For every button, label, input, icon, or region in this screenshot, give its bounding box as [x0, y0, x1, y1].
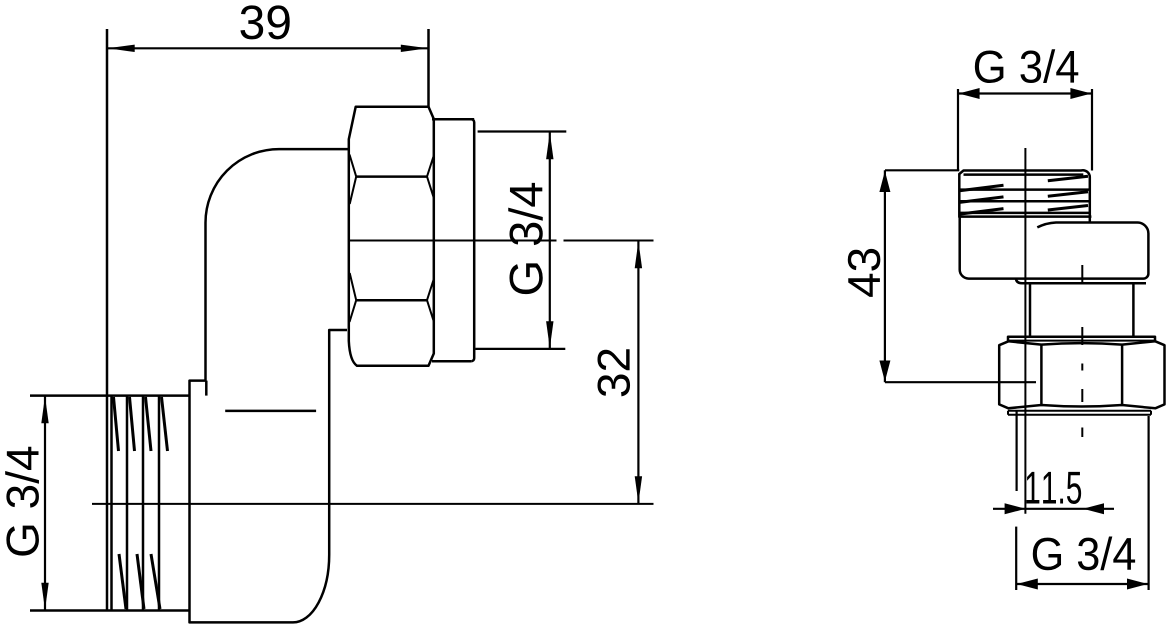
dim39 extension line left: [106, 29, 109, 396]
right view: G34 top extension right: [1091, 89, 1093, 171]
right view: thread wedge left 1: [960, 185, 1004, 191]
right view: dashed centerline segment 5: [1081, 428, 1083, 438]
right view: bottom washer: [1008, 411, 1151, 415]
dim115 arrow left: [1005, 503, 1026, 514]
union nut left notch lower: [350, 273, 357, 322]
elbow inner bore line: [225, 410, 316, 413]
thread end face inner: [110, 396, 113, 611]
dim32 dimension line: [637, 241, 639, 504]
G34 nut arrow up: [546, 132, 553, 159]
dim39 extension line right: [427, 29, 430, 107]
right view: dashed centerline segment 3: [1081, 364, 1083, 371]
sleeve right edge: [471, 119, 474, 361]
dim115 dimension line: [993, 508, 1114, 510]
G34 left arrow up: [41, 396, 48, 423]
dim43 arrow down: [879, 361, 890, 382]
right view: thread wedge left 3: [960, 209, 1004, 215]
dim32 top extension: [564, 240, 654, 242]
thread end face outer: [106, 396, 109, 611]
dim32 arrow up: [635, 241, 642, 268]
thread helix top 2: [130, 397, 135, 451]
union nut chamfer notch upper: [427, 156, 434, 199]
right view: thread root line 3: [959, 212, 1090, 215]
G34 bottom arrow right: [1127, 579, 1148, 590]
label G34 nut: [508, 183, 543, 294]
thread top edge / G34 left top extension: [30, 394, 190, 397]
right view: thread wedge right 3: [1048, 206, 1088, 211]
G34 left dimension line: [44, 396, 46, 611]
dim32 arrow down: [635, 476, 642, 503]
dim43 top extension: [885, 169, 959, 171]
right view: hex nut face line right: [1121, 345, 1124, 405]
axis centerline top: [349, 240, 557, 242]
right view: body lip fillet: [1016, 279, 1022, 284]
sleeve top edge: [432, 118, 474, 121]
label G34 bottom right view: [1033, 536, 1135, 570]
thread helix top 4: [162, 397, 168, 451]
right view: hex nut outline: [999, 341, 1164, 408]
right view: G34 top arrow right: [1070, 88, 1091, 99]
right view: G34 top arrow left: [959, 88, 980, 99]
axis centerline bottom: [92, 503, 654, 505]
right view: top washer bottom line: [1008, 340, 1155, 342]
right view: body lip line: [1022, 282, 1146, 285]
right view: thread wedge right 1: [1048, 176, 1088, 181]
right view: top washer: [1008, 337, 1155, 341]
right view: thread outline: [959, 170, 1090, 217]
right view: thread root line 2: [959, 200, 1090, 203]
dim43 arrow up: [879, 171, 890, 192]
thread helix bottom 1: [119, 554, 126, 609]
right view: G34 top dimension line: [958, 92, 1092, 94]
G34 bottom extension left lower segment: [1015, 527, 1017, 590]
right view: thread root line 1: [959, 188, 1090, 191]
right view: G34 top extension left: [957, 89, 959, 171]
thread crest line 2: [142, 396, 145, 611]
thread helix top 1: [114, 397, 119, 451]
sleeve bottom edge: [432, 360, 471, 363]
thread helix top 3: [146, 397, 152, 451]
G34 bottom extension right: [1147, 416, 1149, 590]
right view: thread chamfer line: [964, 173, 1084, 176]
elbow body outline: [190, 149, 349, 622]
right view: thread right edge lower: [1089, 217, 1092, 224]
dim43 bottom extension: [885, 381, 1036, 383]
thread crest line 1: [126, 396, 129, 611]
right view: thread bottom edge: [959, 215, 1091, 218]
dim39 arrow left: [108, 45, 135, 52]
elbow collar tick: [205, 381, 208, 396]
thread helix bottom 2: [137, 554, 144, 609]
union nut chamfer notch lower: [427, 279, 434, 322]
label G34 left: [5, 447, 39, 556]
label 43: [848, 249, 881, 297]
label 115: [1026, 472, 1081, 504]
right view: thread wedge right 2: [1048, 192, 1088, 197]
thread bottom edge / G34 left bottom extension: [30, 609, 190, 612]
dim43 dimension line: [884, 170, 886, 382]
right view: dashed centerline segment 4: [1081, 389, 1083, 402]
right view: neck left edge: [1029, 283, 1032, 336]
G34 nut dimension line: [549, 132, 551, 349]
dim39 line: [107, 47, 429, 49]
G34 nut top extension: [478, 130, 567, 132]
right view: neck right edge: [1132, 283, 1135, 336]
G34 bottom arrow left: [1017, 579, 1038, 590]
right view: body outline: [960, 217, 1149, 279]
right view: centerline top thread: [1024, 148, 1026, 514]
dim115 left extension upper segment: [1015, 411, 1017, 491]
union nut outline: [349, 107, 434, 366]
dim39 arrow right: [401, 45, 428, 52]
label 32: [597, 349, 630, 396]
G34 nut arrow down: [546, 321, 553, 348]
right view: hex nut face line left: [1040, 345, 1043, 405]
label G34 top right view: [975, 49, 1078, 83]
G34 bottom dimension line: [1016, 583, 1148, 585]
right view: dashed centerline segment 1: [1081, 265, 1083, 283]
right view: thread wedge left 2: [960, 197, 1004, 203]
union nut left notch upper: [350, 155, 357, 205]
G34 left arrow down: [41, 583, 48, 610]
G34 nut bottom extension: [475, 348, 565, 350]
right view: dashed centerline segment 2: [1081, 327, 1083, 345]
union nut face line lower: [356, 299, 427, 302]
union nut face line upper: [356, 175, 427, 178]
label 39: [240, 5, 289, 39]
thread helix bottom 3: [151, 554, 160, 609]
dim115 arrow right: [1083, 503, 1104, 514]
thread crest line 3: [158, 396, 161, 611]
